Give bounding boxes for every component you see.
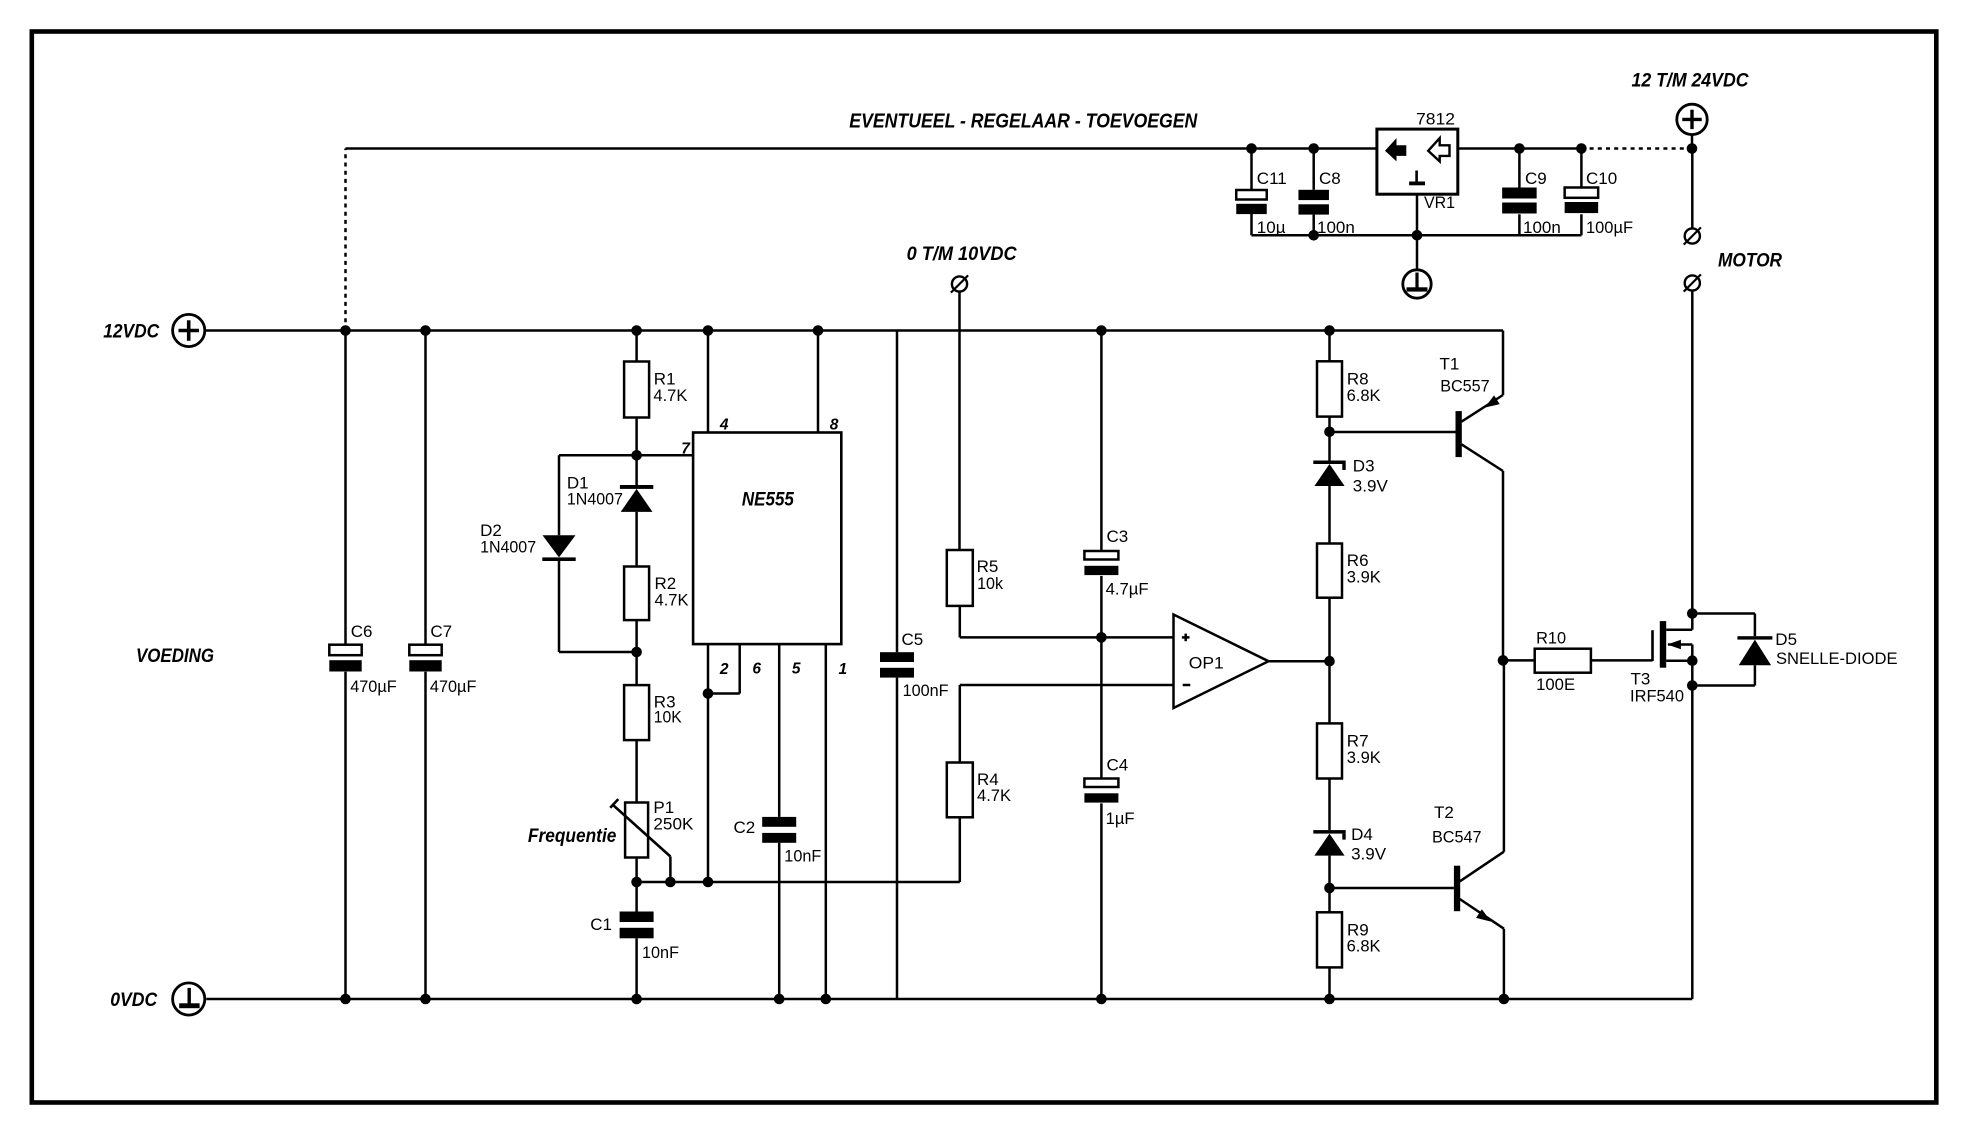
svg-text:VR1: VR1 <box>1424 193 1455 212</box>
svg-text:10µ: 10µ <box>1257 218 1286 237</box>
svg-text:R10: R10 <box>1536 629 1566 648</box>
svg-text:NE555: NE555 <box>742 489 795 511</box>
svg-text:10nF: 10nF <box>642 943 679 962</box>
svg-text:D3: D3 <box>1353 457 1375 476</box>
svg-text:C5: C5 <box>902 630 924 649</box>
svg-text:100n: 100n <box>1317 218 1355 237</box>
svg-text:EVENTUEEL - REGELAAR - TOEVOEG: EVENTUEEL - REGELAAR - TOEVOEGEN <box>849 110 1198 133</box>
svg-text:VOEDING: VOEDING <box>136 645 214 667</box>
svg-text:10nF: 10nF <box>784 847 821 866</box>
svg-text:OP1: OP1 <box>1189 654 1224 673</box>
svg-text:3.9V: 3.9V <box>1351 845 1387 864</box>
svg-text:IRF540: IRF540 <box>1630 686 1684 705</box>
svg-text:3.9V: 3.9V <box>1353 477 1389 496</box>
svg-text:T2: T2 <box>1434 803 1454 822</box>
svg-text:7812: 7812 <box>1416 110 1455 129</box>
svg-text:C10: C10 <box>1586 169 1617 188</box>
svg-text:D5: D5 <box>1775 630 1797 649</box>
svg-text:C4: C4 <box>1107 756 1129 775</box>
svg-text:4.7µF: 4.7µF <box>1106 580 1149 599</box>
svg-text:C7: C7 <box>430 622 452 641</box>
svg-text:3.9K: 3.9K <box>1347 748 1382 767</box>
svg-text:4.7K: 4.7K <box>655 591 690 610</box>
svg-text:C9: C9 <box>1525 169 1547 188</box>
svg-text:2: 2 <box>719 661 729 678</box>
svg-text:250K: 250K <box>653 815 694 834</box>
svg-text:10K: 10K <box>654 708 683 727</box>
svg-text:C6: C6 <box>351 622 373 641</box>
svg-text:0VDC: 0VDC <box>110 989 158 1011</box>
svg-text:1N4007: 1N4007 <box>480 538 536 557</box>
svg-text:470µF: 470µF <box>350 677 397 696</box>
svg-text:6.8K: 6.8K <box>1347 386 1382 405</box>
svg-text:C2: C2 <box>734 818 756 837</box>
svg-text:1µF: 1µF <box>1106 809 1135 828</box>
svg-text:Frequentie: Frequentie <box>528 825 617 847</box>
svg-text:12VDC: 12VDC <box>103 321 160 343</box>
svg-text:D4: D4 <box>1351 825 1373 844</box>
svg-text:5: 5 <box>792 661 801 678</box>
svg-text:0 T/M 10VDC: 0 T/M 10VDC <box>907 243 1018 265</box>
svg-text:4.7K: 4.7K <box>977 786 1012 805</box>
svg-text:4.7K: 4.7K <box>653 386 688 405</box>
svg-text:1N4007: 1N4007 <box>567 490 623 509</box>
svg-text:8: 8 <box>830 417 839 434</box>
svg-text:1: 1 <box>839 661 848 678</box>
svg-text:7: 7 <box>681 441 691 458</box>
svg-text:C8: C8 <box>1319 169 1341 188</box>
svg-text:C3: C3 <box>1107 527 1129 546</box>
svg-text:C11: C11 <box>1257 169 1287 188</box>
svg-text:6.8K: 6.8K <box>1347 936 1382 955</box>
svg-text:T1: T1 <box>1440 355 1460 374</box>
svg-text:100n: 100n <box>1523 218 1561 237</box>
svg-text:BC557: BC557 <box>1440 377 1490 396</box>
svg-text:100E: 100E <box>1536 675 1575 694</box>
svg-text:3.9K: 3.9K <box>1347 568 1382 587</box>
svg-text:470µF: 470µF <box>430 677 477 696</box>
svg-text:100µF: 100µF <box>1586 218 1633 237</box>
svg-text:12 T/M 24VDC: 12 T/M 24VDC <box>1632 70 1750 92</box>
svg-text:4: 4 <box>719 417 729 434</box>
svg-text:C1: C1 <box>590 915 612 934</box>
svg-text:100nF: 100nF <box>903 681 949 700</box>
svg-text:MOTOR: MOTOR <box>1718 250 1782 272</box>
svg-text:SNELLE-DIODE: SNELLE-DIODE <box>1776 649 1898 668</box>
svg-text:6: 6 <box>752 661 761 678</box>
svg-text:BC547: BC547 <box>1432 828 1482 847</box>
svg-text:10k: 10k <box>977 574 1003 593</box>
